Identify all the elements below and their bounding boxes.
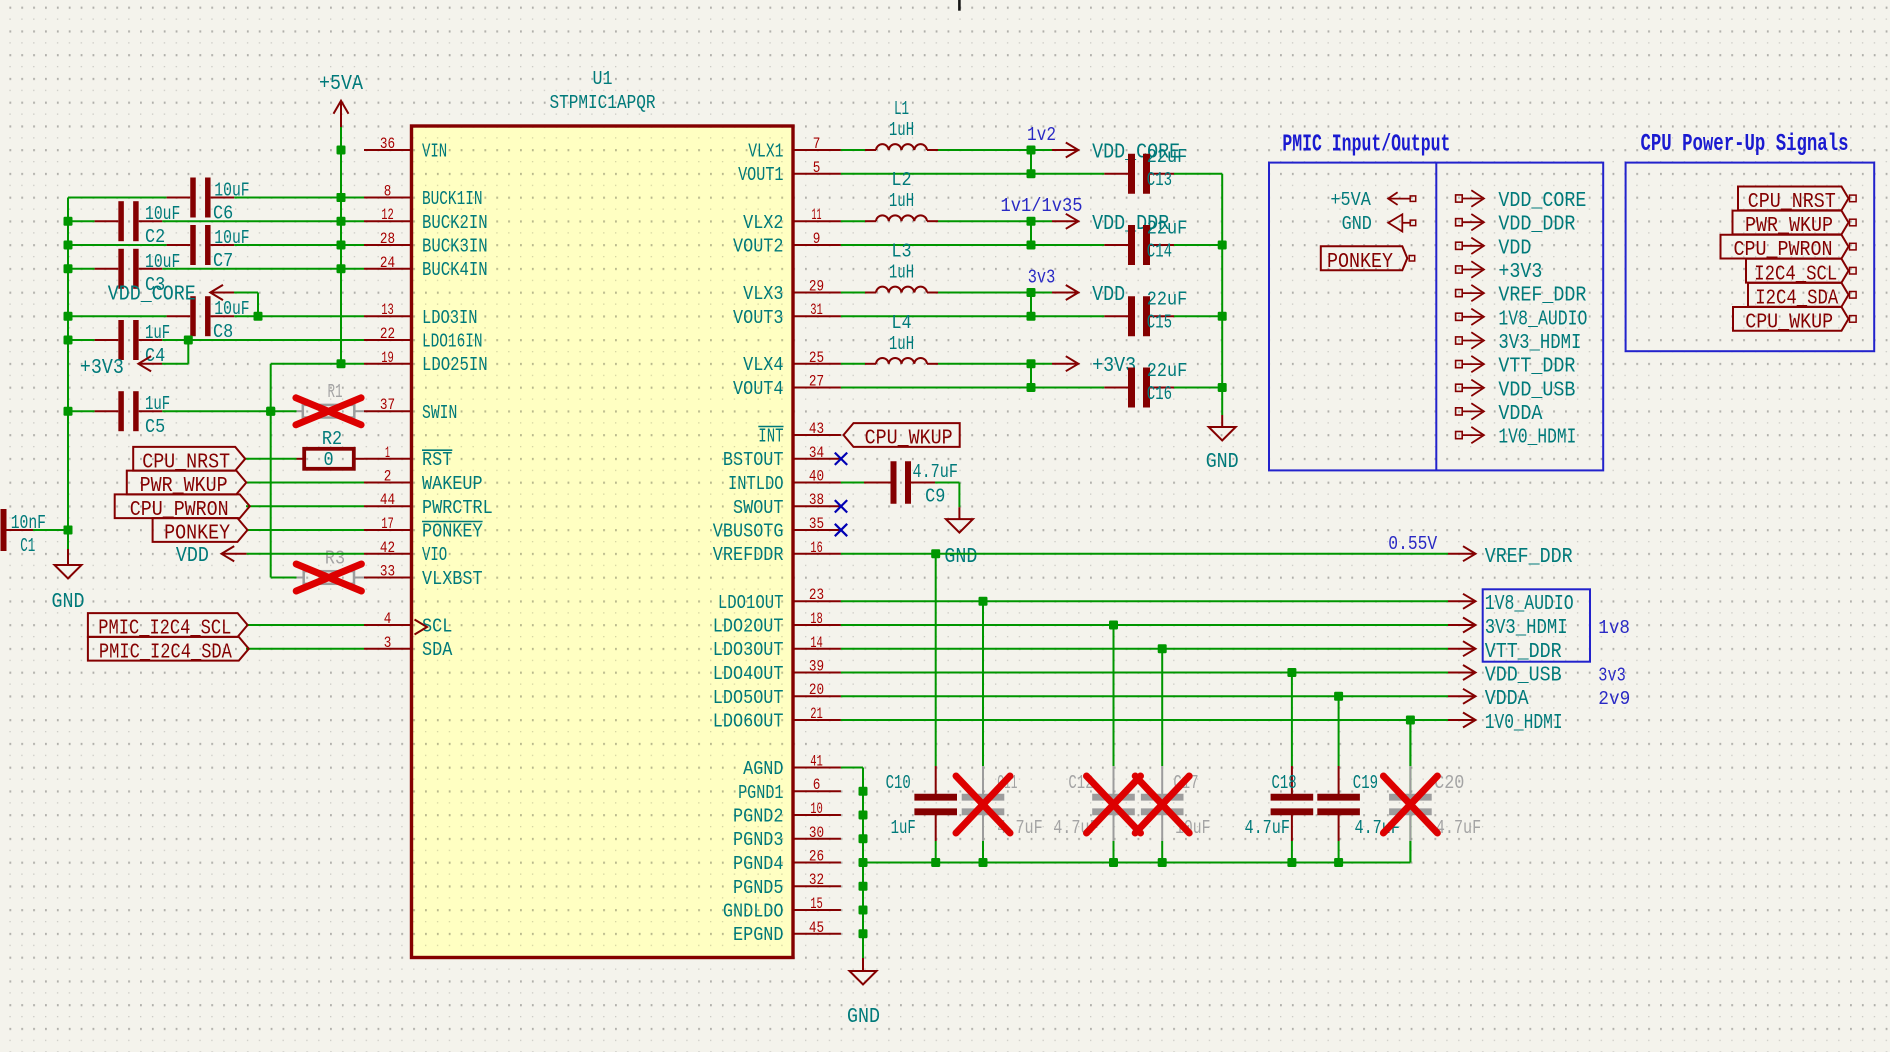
- svg-text:21: 21: [810, 705, 823, 723]
- svg-text:SWIN: SWIN: [422, 402, 457, 424]
- svg-text:3V3_HDMI: 3V3_HDMI: [1498, 332, 1581, 355]
- svg-text:PGND3: PGND3: [733, 829, 784, 851]
- svg-text:1uF: 1uF: [145, 393, 170, 415]
- svg-text:18: 18: [810, 610, 823, 628]
- svg-text:10uF: 10uF: [214, 298, 249, 320]
- svg-text:RST: RST: [422, 449, 452, 471]
- svg-text:BUCK3IN: BUCK3IN: [422, 236, 488, 258]
- svg-text:1uF: 1uF: [891, 817, 916, 839]
- svg-text:4.7uF: 4.7uF: [1245, 817, 1290, 839]
- svg-text:0: 0: [324, 449, 334, 471]
- svg-text:L4: L4: [891, 312, 911, 334]
- svg-text:LDO5OUT: LDO5OUT: [713, 687, 784, 709]
- svg-text:VLXBST: VLXBST: [422, 568, 483, 590]
- svg-text:PONKEY: PONKEY: [422, 521, 483, 543]
- svg-text:VDD_CORE: VDD_CORE: [108, 284, 196, 307]
- svg-text:BUCK4IN: BUCK4IN: [422, 259, 488, 281]
- svg-text:PWRCTRL: PWRCTRL: [422, 497, 493, 519]
- svg-text:10: 10: [810, 800, 823, 818]
- svg-text:33: 33: [380, 563, 395, 581]
- svg-text:PGND5: PGND5: [733, 877, 784, 899]
- svg-text:3V3_HDMI: 3V3_HDMI: [1485, 617, 1568, 640]
- svg-text:VDD_CORE: VDD_CORE: [1498, 190, 1586, 213]
- svg-text:VTT_DDR: VTT_DDR: [1485, 641, 1562, 664]
- svg-text:10uF: 10uF: [145, 251, 180, 273]
- svg-text:6: 6: [813, 776, 821, 794]
- svg-text:C19: C19: [1353, 772, 1378, 794]
- svg-text:LDO2OUT: LDO2OUT: [713, 616, 784, 638]
- svg-text:L1: L1: [894, 98, 909, 120]
- svg-text:42: 42: [380, 539, 395, 557]
- svg-text:1v2: 1v2: [1027, 124, 1056, 146]
- svg-text:PGND4: PGND4: [733, 853, 784, 875]
- svg-text:4.7uF: 4.7uF: [913, 461, 958, 483]
- svg-text:CPU_WKUP: CPU_WKUP: [1745, 312, 1833, 335]
- svg-text:VDD_DDR: VDD_DDR: [1498, 214, 1575, 237]
- svg-text:PGND1: PGND1: [738, 782, 783, 804]
- svg-text:34: 34: [809, 444, 824, 462]
- svg-text:VTT_DDR: VTT_DDR: [1498, 356, 1575, 379]
- svg-text:10uF: 10uF: [214, 227, 249, 249]
- svg-text:30: 30: [809, 824, 824, 842]
- svg-text:19: 19: [381, 349, 394, 367]
- svg-text:VDDA: VDDA: [1485, 688, 1529, 711]
- svg-text:BUCK2IN: BUCK2IN: [422, 212, 488, 234]
- svg-text:37: 37: [380, 396, 395, 414]
- svg-text:8: 8: [384, 183, 392, 201]
- svg-text:VLX2: VLX2: [743, 212, 783, 234]
- svg-text:C6: C6: [213, 203, 233, 225]
- svg-text:10uF: 10uF: [214, 180, 249, 202]
- svg-text:0.55V: 0.55V: [1388, 533, 1437, 555]
- svg-text:1V0_HDMI: 1V0_HDMI: [1498, 427, 1576, 450]
- svg-text:PONKEY: PONKEY: [1327, 251, 1393, 274]
- svg-text:14: 14: [810, 634, 823, 652]
- svg-text:VIN: VIN: [422, 141, 447, 163]
- svg-text:VOUT3: VOUT3: [733, 307, 784, 329]
- svg-text:1: 1: [385, 444, 390, 462]
- svg-text:LDO3OUT: LDO3OUT: [713, 639, 784, 661]
- svg-text:1uH: 1uH: [889, 119, 914, 141]
- svg-text:3v3: 3v3: [1028, 267, 1056, 289]
- svg-text:15: 15: [810, 895, 823, 913]
- svg-text:SWOUT: SWOUT: [733, 497, 784, 519]
- svg-text:R3: R3: [325, 548, 345, 570]
- svg-text:40: 40: [809, 468, 824, 486]
- svg-text:C13: C13: [1147, 169, 1172, 191]
- svg-text:22: 22: [380, 325, 395, 343]
- svg-text:GNDLDO: GNDLDO: [723, 901, 784, 923]
- svg-text:GND: GND: [944, 546, 977, 569]
- svg-text:WAKEUP: WAKEUP: [422, 473, 483, 495]
- svg-text:2v9: 2v9: [1598, 688, 1630, 710]
- svg-text:+3V3: +3V3: [1498, 261, 1542, 284]
- svg-text:3: 3: [384, 634, 392, 652]
- svg-text:LDO1OUT: LDO1OUT: [718, 592, 784, 614]
- svg-text:VOUT1: VOUT1: [738, 164, 783, 186]
- svg-text:22uF: 22uF: [1147, 217, 1187, 239]
- svg-text:12: 12: [381, 206, 394, 224]
- svg-text:31: 31: [810, 301, 823, 319]
- svg-text:28: 28: [380, 230, 395, 248]
- svg-text:22uF: 22uF: [1147, 289, 1187, 311]
- svg-text:16: 16: [810, 539, 823, 557]
- svg-text:VBUSOTG: VBUSOTG: [713, 521, 784, 543]
- svg-text:32: 32: [809, 871, 824, 889]
- svg-text:PMIC_I2C4_SDA: PMIC_I2C4_SDA: [99, 641, 232, 664]
- svg-text:LDO4OUT: LDO4OUT: [713, 663, 784, 685]
- svg-text:41: 41: [810, 753, 823, 771]
- svg-text:AGND: AGND: [743, 758, 783, 780]
- svg-text:GND: GND: [1206, 451, 1239, 474]
- svg-text:VLX1: VLX1: [748, 141, 783, 163]
- svg-text:VOUT4: VOUT4: [733, 378, 784, 400]
- svg-text:C15: C15: [1147, 312, 1172, 334]
- svg-text:SDA: SDA: [422, 639, 453, 661]
- svg-text:39: 39: [809, 658, 824, 676]
- svg-text:23: 23: [809, 586, 824, 604]
- svg-text:VDD: VDD: [1092, 284, 1125, 307]
- svg-text:VDD: VDD: [1498, 237, 1531, 260]
- svg-text:C14: C14: [1147, 240, 1172, 262]
- svg-text:PONKEY: PONKEY: [164, 523, 230, 546]
- svg-text:2: 2: [384, 468, 392, 486]
- svg-text:27: 27: [809, 373, 824, 391]
- svg-text:22uF: 22uF: [1147, 146, 1187, 168]
- svg-text:LDO6OUT: LDO6OUT: [713, 711, 784, 733]
- svg-text:GND: GND: [847, 1006, 880, 1029]
- svg-text:+5VA: +5VA: [1330, 189, 1371, 211]
- svg-text:C18: C18: [1272, 772, 1297, 794]
- svg-text:PGND2: PGND2: [733, 806, 784, 828]
- svg-text:+5VA: +5VA: [319, 73, 363, 96]
- svg-text:BSTOUT: BSTOUT: [723, 449, 784, 471]
- svg-text:VDDA: VDDA: [1498, 403, 1542, 426]
- svg-text:R2: R2: [322, 428, 342, 450]
- svg-text:STPMIC1APQR: STPMIC1APQR: [550, 92, 656, 114]
- svg-text:LDO25IN: LDO25IN: [422, 354, 488, 376]
- svg-text:GND: GND: [1342, 213, 1372, 235]
- svg-text:3v3: 3v3: [1598, 665, 1626, 687]
- svg-text:38: 38: [809, 491, 824, 509]
- svg-text:7: 7: [813, 135, 821, 153]
- svg-text:C5: C5: [145, 416, 165, 438]
- svg-text:VDD: VDD: [176, 545, 209, 568]
- svg-text:VREFDDR: VREFDDR: [713, 544, 784, 566]
- svg-text:1V0_HDMI: 1V0_HDMI: [1485, 712, 1563, 735]
- svg-text:C9: C9: [925, 486, 945, 508]
- svg-text:VLX3: VLX3: [743, 283, 783, 305]
- svg-text:+3V3: +3V3: [80, 357, 124, 380]
- svg-text:VREF_DDR: VREF_DDR: [1498, 285, 1586, 308]
- svg-text:LDO3IN: LDO3IN: [422, 307, 478, 329]
- svg-text:BUCK1IN: BUCK1IN: [422, 188, 483, 210]
- svg-text:13: 13: [381, 301, 394, 319]
- svg-text:VREF_DDR: VREF_DDR: [1485, 546, 1573, 569]
- svg-text:1V8_AUDIO: 1V8_AUDIO: [1485, 593, 1574, 616]
- svg-text:11: 11: [812, 206, 822, 224]
- svg-text:20: 20: [809, 681, 824, 699]
- svg-text:24: 24: [380, 254, 395, 272]
- svg-text:17: 17: [381, 515, 394, 533]
- svg-text:C1: C1: [20, 535, 35, 557]
- svg-text:1uH: 1uH: [889, 262, 914, 284]
- svg-text:C10: C10: [886, 772, 911, 794]
- svg-text:1V8_AUDIO: 1V8_AUDIO: [1498, 308, 1587, 331]
- svg-text:44: 44: [380, 491, 395, 509]
- svg-text:4: 4: [384, 610, 392, 628]
- svg-text:43: 43: [809, 420, 824, 438]
- svg-text:C2: C2: [145, 226, 165, 248]
- svg-text:25: 25: [809, 349, 824, 367]
- svg-text:INTLDO: INTLDO: [728, 473, 784, 495]
- svg-text:29: 29: [809, 278, 824, 296]
- svg-text:VLX4: VLX4: [743, 354, 783, 376]
- svg-text:INT: INT: [758, 426, 783, 448]
- svg-text:U1: U1: [593, 68, 613, 90]
- svg-text:26: 26: [809, 848, 824, 866]
- svg-text:GND: GND: [52, 591, 85, 614]
- svg-text:C16: C16: [1147, 383, 1172, 405]
- svg-text:VIO: VIO: [422, 544, 447, 566]
- svg-text:22uF: 22uF: [1147, 360, 1187, 382]
- svg-text:1v1/1v35: 1v1/1v35: [1001, 195, 1083, 217]
- svg-text:VDD_USB: VDD_USB: [1485, 665, 1562, 688]
- svg-text:1uF: 1uF: [145, 322, 170, 344]
- svg-text:10uF: 10uF: [145, 203, 180, 225]
- svg-text:LDO16IN: LDO16IN: [422, 331, 483, 353]
- svg-text:45: 45: [809, 919, 824, 937]
- svg-text:1uH: 1uH: [889, 333, 914, 355]
- svg-text:36: 36: [380, 135, 395, 153]
- svg-text:1v8: 1v8: [1598, 617, 1630, 639]
- svg-text:EPGND: EPGND: [733, 924, 784, 946]
- svg-text:CPU_WKUP: CPU_WKUP: [865, 428, 953, 451]
- svg-text:10nF: 10nF: [11, 512, 46, 534]
- svg-text:R1: R1: [327, 381, 342, 403]
- svg-text:4.7uF: 4.7uF: [1436, 817, 1481, 839]
- svg-text:C8: C8: [213, 321, 233, 343]
- svg-text:VOUT2: VOUT2: [733, 236, 784, 258]
- svg-text:CPU Power-Up Signals: CPU Power-Up Signals: [1641, 131, 1849, 158]
- svg-text:5: 5: [813, 159, 821, 177]
- svg-text:L3: L3: [891, 241, 911, 263]
- svg-text:35: 35: [809, 515, 824, 533]
- svg-text:VDD_USB: VDD_USB: [1498, 379, 1575, 402]
- svg-text:9: 9: [813, 230, 821, 248]
- svg-text:1uH: 1uH: [889, 190, 914, 212]
- svg-text:PMIC Input/Output: PMIC Input/Output: [1282, 131, 1450, 158]
- svg-text:C7: C7: [213, 250, 233, 272]
- svg-text:L2: L2: [891, 169, 911, 191]
